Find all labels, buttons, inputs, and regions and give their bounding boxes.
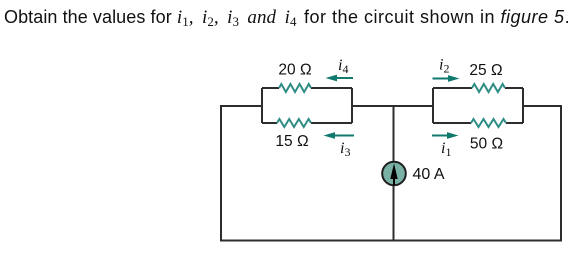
svg-text:20 Ω: 20 Ω — [278, 62, 311, 79]
wire: outer bottom — [220, 240, 562, 242]
svg-text:i4: i4 — [338, 57, 348, 76]
svg-text:i3: i3 — [340, 140, 350, 159]
wire: left connector — [220, 105, 263, 107]
current arrow i2 — [433, 75, 460, 82]
svg-text:50 Ω: 50 Ω — [470, 136, 503, 153]
wire: outer right vertical — [560, 105, 562, 241]
wire: middle connector — [351, 105, 434, 107]
current arrow i3 — [324, 132, 355, 139]
wire: outer left vertical — [220, 105, 222, 241]
current arrow i1 — [432, 132, 459, 139]
svg-text:i1: i1 — [441, 140, 451, 159]
wire: middle vertical — [393, 106, 395, 241]
current arrow i4 — [326, 75, 354, 82]
current source 40A — [382, 162, 406, 186]
wire: left parallel box frame — [262, 88, 352, 123]
svg-text:i2: i2 — [439, 57, 449, 76]
svg-text:25 Ω: 25 Ω — [469, 62, 502, 79]
wire: right parallel box frame — [433, 88, 523, 123]
wire: right connector — [522, 105, 562, 107]
resistor 25ohm zigzag — [472, 84, 505, 92]
svg-text:15 Ω: 15 Ω — [275, 133, 308, 150]
resistor 20ohm zigzag — [279, 84, 311, 92]
resistor 15ohm zigzag — [277, 119, 311, 127]
resistor 50ohm zigzag — [471, 119, 506, 127]
svg-text:40 A: 40 A — [413, 166, 445, 183]
